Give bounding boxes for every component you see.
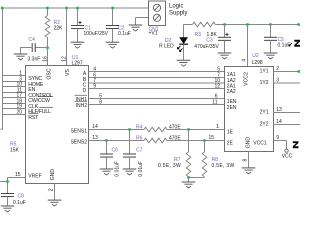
pin number 3 [19,77,22,83]
pin number U1 6 [93,72,96,78]
label C2 [118,25,125,31]
ground D2 [177,60,191,66]
svg-text:13: 13 [92,135,98,141]
label U2 VCC2 [243,72,249,86]
pin name HLF/FULL [28,109,51,115]
label C7 [136,147,143,153]
overline CCW [38,96,53,98]
wire left control bus vertical [0,8,2,130]
svg-text:0.1uF: 0.1uF [278,42,291,48]
svg-text:470uF/35V: 470uF/35V [194,44,219,50]
node junction SENS1 R7 [187,128,190,131]
label C5 value [278,42,291,48]
svg-text:470E: 470E [169,135,181,141]
wire C7 stem top [129,130,131,155]
label U1 [72,55,79,61]
label U1 VS [65,69,71,76]
svg-text:Logic: Logic [169,4,183,10]
wire C4 ground stem [20,48,22,54]
wire C1 ground stem [77,29,79,42]
label R4 [136,124,143,130]
wire C7 ground stem [129,157,131,169]
resistor R4 [144,127,167,132]
capacitor C5 [264,37,277,40]
svg-text:R6: R6 [136,135,143,141]
node junction rail VS [65,7,68,10]
svg-text:GND: GND [50,169,56,181]
svg-text:VREF: VREF [28,174,41,180]
pin number 16 [42,56,48,62]
pin name U2 1E [227,129,234,135]
svg-text:2E: 2E [227,140,234,146]
pin number U2 15 [208,135,214,141]
wire VS pin12 from rail to U1 [66,8,68,66]
supply VCC symbol [282,149,293,159]
pin name U1 INH1 [76,97,88,103]
svg-text:C6: C6 [112,147,119,153]
pin name EN [28,87,35,93]
pin number U1 7 [93,78,96,84]
label R2 [54,20,61,26]
svg-text:R4: R4 [136,124,143,130]
wire U1 pin 17 stub [3,97,26,99]
wire C4 right [35,47,48,49]
wire D2 cathode to ground [183,44,185,60]
pin number U1 13 [92,135,98,141]
wire U2 VCC1 pin9 [274,141,287,149]
svg-text:U2: U2 [252,53,259,59]
pin name CLK [28,104,38,110]
svg-text:SENS2: SENS2 [71,139,88,145]
svg-text:0.5E, 3W: 0.5E, 3W [212,163,235,169]
ground C6 [100,169,114,175]
node junction rail C1 [76,7,79,10]
capacitor C2 [106,26,119,29]
wire U1 pin 3 stub [3,81,26,83]
capacitor C7 [123,154,136,157]
wire U2 GND pin8 [248,152,250,168]
label U2 [252,53,259,59]
ground C1 [71,42,85,48]
pin number U2 10 [214,78,220,84]
pin number 15 [15,172,21,178]
wire R2 bottom stub [47,38,49,49]
svg-text:22K: 22K [54,26,64,32]
pin name CONTROL [28,93,52,99]
pin number U2 1 [216,124,219,130]
overline INH1 [75,94,88,96]
pin name U2 1EN [227,99,237,105]
wire OSC pin16 to U1 [47,48,49,66]
svg-text:13: 13 [276,107,282,113]
node junction rail C3 [223,23,226,26]
svg-text:R5: R5 [10,141,17,147]
ground C4 [14,54,28,60]
label C3 [206,37,213,43]
wire VREF left [0,181,8,183]
pin name SYNC [28,76,42,82]
svg-text:+V1: +V1 [149,31,158,37]
label R8 value [212,163,235,169]
pin name U2 1Y2 [260,80,269,86]
wire C bus U1-U2 [89,82,225,84]
svg-text:C8: C8 [18,193,25,199]
wire B bus U1-U2 [89,77,225,79]
capacitor C4 [32,43,35,52]
svg-text:16: 16 [42,56,48,62]
label CN1 [149,26,159,32]
node junction SENS2 C6 [105,139,108,142]
label C2 value [118,31,131,37]
pin number 10 [16,82,22,88]
node junction VREF C8 [6,180,9,183]
node junction rail left-bus [1,7,4,10]
resistor R6 [144,138,167,143]
svg-text:470E: 470E [169,124,181,130]
ground U2 pin8 [242,168,256,174]
ground C8 [1,206,15,212]
wire SENS1 U1 to U2 pin1 [89,129,225,131]
svg-text:C7: C7 [136,147,143,153]
wire SENS2 U1 to U2 pin15 [89,140,225,142]
svg-text:3.3nF: 3.3nF [28,57,41,63]
svg-text:2EN: 2EN [227,105,237,111]
capacitor C6 [100,154,113,157]
label R2 value 22K [54,26,64,32]
wire +5V top rail [2,7,149,9]
svg-text:8: 8 [99,99,102,105]
svg-text:15K: 15K [10,148,20,154]
ground R7 R8 [182,182,196,188]
svg-text:2A2: 2A2 [227,89,236,95]
label C8 value [13,200,26,206]
wire A bus U1-U2 [89,71,225,73]
wire U1 pin 11 stub [3,92,26,94]
label C1 value [84,31,109,37]
wire U2 1Y1 output [274,71,301,73]
svg-text:15: 15 [15,172,21,178]
svg-text:100uF/25V: 100uF/25V [84,31,109,37]
wire U1 pin 20 stub [3,114,26,116]
wire R7-R8 bottom [189,177,205,179]
svg-text:RST: RST [28,115,39,121]
wire VCC2 pin4 to U2 [247,25,249,67]
pin name RST [28,115,39,121]
wire C6 ground stem [106,157,108,169]
pin number 20 [16,110,22,116]
label U1 OSC [46,68,52,79]
pin number U1 4 [93,66,96,72]
svg-text:1E: 1E [227,129,234,135]
svg-text:0.1uF: 0.1uF [13,200,26,206]
pin name U2 2Y1 [260,110,269,116]
capacitor C3 polarized [218,33,231,41]
resistor R8 [202,152,207,177]
ground C2 [106,42,120,48]
ground C7 [123,169,137,175]
wire INH2 bus U1-U2 [89,104,225,106]
capacitor C1 polarized [71,21,84,29]
svg-text:12: 12 [214,83,220,89]
label R7 [174,157,181,163]
overline FULL [39,107,53,109]
pin number U1 5 [99,93,102,99]
label D2 R LED [159,44,174,50]
svg-text:2Y2: 2Y2 [260,122,269,128]
pin name SENS2 [71,139,88,145]
wire R7 ground stem [188,178,190,182]
wire U2 2Y2 output [274,124,301,126]
label R3 [195,32,202,38]
wire R2 top stub [47,8,49,16]
label R6 [136,135,143,141]
pin number U1 8 [99,99,102,105]
pin number U2 7 [217,72,220,78]
wire U1 pin 10 stub [3,86,26,88]
wire D bus U1-U2 [89,88,225,90]
svg-text:2Y1: 2Y1 [260,110,269,116]
label CN1 +V1 [149,31,158,37]
wire C6 stem top [106,141,108,155]
svg-text:VCC: VCC [282,153,293,159]
label C6 value 0.01uF [115,161,121,177]
svg-text:15: 15 [208,135,214,141]
svg-text:2: 2 [49,188,55,191]
svg-text:C3: C3 [206,37,213,43]
wire U1 pin 19 stub [3,108,26,110]
svg-text:1: 1 [216,124,219,130]
label R3 value 1.8K [207,32,218,38]
ground C5 [264,53,278,59]
label R5 value 15K [10,148,20,154]
wire C5 top stub [270,25,272,38]
pin number U2 13 [276,107,282,113]
overline INH2 [75,100,88,102]
svg-text:0.01uF: 0.01uF [115,161,121,177]
svg-text:14: 14 [276,119,282,125]
svg-text:1Y1: 1Y1 [260,69,269,75]
wire VREF down [7,178,9,194]
pin name U1 D [83,88,87,94]
diode at edge bottom (cut off) [293,141,299,148]
label C6 [112,147,119,153]
pin number 19 [16,104,22,110]
svg-text:SENS1: SENS1 [71,128,88,134]
wire C1 top stub [77,8,79,26]
svg-text:9: 9 [276,135,279,141]
pin number U2 3 [276,78,279,84]
wire INH1 bus U1-U2 [89,98,225,100]
connector CN1 terminal block [149,1,166,26]
wire C4 left [20,47,32,49]
label R6 value 470E [169,135,181,141]
svg-text:R3: R3 [195,32,202,38]
label U1 L297 [72,61,83,67]
svg-text:R8: R8 [212,157,219,163]
label D2 [165,38,172,44]
pin name U1 B [83,77,87,83]
label C8 [18,193,25,199]
pin name U1 A [83,71,87,77]
node junction R7 ground [187,176,190,179]
svg-text:D: D [83,88,87,94]
label C1 [85,25,92,31]
label R7 value [158,163,181,169]
ground C3 [218,53,232,59]
pin name U2 2E [227,140,234,146]
pin name U1 INH2 [76,103,88,109]
capacitor C8 [1,194,14,197]
diode D2 red LED [177,37,188,51]
svg-text:20: 20 [16,110,22,116]
svg-text:GND: GND [245,137,251,149]
label R8 [212,157,219,163]
svg-text:VCC1: VCC1 [253,140,267,146]
svg-text:VS: VS [65,69,71,76]
svg-text:R7: R7 [174,157,181,163]
svg-text:Supply: Supply [169,10,187,16]
pin name VREF [28,174,41,180]
svg-text:OSC: OSC [46,68,52,79]
svg-text:1Y2: 1Y2 [260,80,269,86]
pin number 1 [19,71,22,77]
pin number U2 2 [276,66,279,72]
node junction rail R2 [46,7,49,10]
wire +V motor rail right [215,24,300,26]
wire U1 GND pin2 [54,184,56,200]
svg-text:0.1uF: 0.1uF [118,31,131,37]
resistor R7 [186,152,191,177]
label C3 value [194,44,219,50]
pin number 12 [61,56,67,62]
node junction R2 C4 OSC [46,46,49,49]
pin number U2 11 [212,99,217,105]
pin number U1 14 [92,124,98,130]
wire C2 ground stem [112,29,114,42]
pin number U2 9 [276,135,279,141]
wire C3 top stub [224,25,226,38]
pin number U2 8 [243,159,249,162]
label C5 [278,37,285,43]
svg-text:0.01uF: 0.01uF [138,161,144,177]
diode D1 at edge (cut off) [289,40,300,47]
wire U2 2Y1 output [274,112,301,114]
label C7 value 0.01uF [138,161,144,177]
svg-text:8: 8 [243,159,249,162]
ground U1 pin2 [48,200,62,206]
wire C5 ground stem [270,40,272,52]
pin number U2 5 [217,66,220,72]
pin name U2 VCC1 [253,140,267,146]
pin name U2 2Y2 [260,122,269,128]
svg-text:12: 12 [61,56,67,62]
label C4 [29,37,36,43]
node junction rail edge [297,23,300,26]
pin name SENS1 [71,128,88,134]
wire +V motor rail left [184,24,193,26]
svg-text:3: 3 [276,78,279,84]
pin name U2 2A2 [227,89,236,95]
pin name U2 1A2 [227,78,236,84]
wire U1 pin 1 stub [3,75,26,77]
wire U2 1Y2 output [274,82,301,84]
label C4 value 3.3nF [28,57,41,63]
svg-text:0.5E, 3W: 0.5E, 3W [158,163,181,169]
svg-text:C4: C4 [29,37,36,43]
overline RST [28,113,38,115]
label U2 GND [245,137,251,149]
wire D2 anode [183,25,185,38]
wire C2 top stub [112,8,114,26]
wire U1 pin 18 stub [3,103,26,105]
label R4 value 470E [169,124,181,130]
resistor R2 [45,16,50,38]
svg-text:4: 4 [241,59,247,62]
pin number 18 [16,99,22,105]
svg-text:L297: L297 [72,61,83,67]
pin name U2 2A1 [227,84,236,90]
node junction rail C5 [269,23,272,26]
pin number U1 9 [93,83,96,89]
node junction rail VCC2 [246,23,249,26]
svg-text:11: 11 [212,99,217,105]
pin name HOME [28,82,44,88]
pin name U1 C [83,83,87,89]
svg-text:2: 2 [276,66,279,72]
ic U1 box [26,66,89,184]
label Logic Supply [169,4,187,17]
wire R8 top stub [204,141,206,152]
wire C3 ground stem [224,40,226,52]
pin number U2 12 [214,83,220,89]
svg-text:R LED: R LED [159,44,174,50]
pin number U2 14 [276,119,282,125]
pin name U2 1A1 [227,72,236,78]
svg-text:9: 9 [93,83,96,89]
node junction 1Y1 edge [297,70,300,73]
wire C8 ground stem [7,197,9,206]
resistor R3 [193,22,216,27]
wire CN1 pin2 horizontal [136,17,149,19]
pin name U2 2EN [227,105,237,111]
svg-text:14: 14 [92,124,98,130]
pin number 11 [17,88,22,94]
wire R7 top stub [188,130,190,152]
wire CN1 ground stem [135,18,137,25]
ic U2 box [225,67,274,152]
pin number U2 6 [215,93,218,99]
ground CN1 [129,25,143,31]
pin number 4 [241,59,247,62]
label U2 L298 [252,60,263,66]
node junction rail C2 [111,7,114,10]
svg-text:L298: L298 [252,60,263,66]
pin name U2 1Y1 [260,69,269,75]
svg-text:VCC2: VCC2 [243,72,249,86]
pin number 17 [16,93,22,99]
wire VREF pin15 [8,177,26,179]
pin name CW/CCW [28,98,50,104]
svg-text:INH2: INH2 [76,103,88,109]
pin number 2 [49,188,55,191]
node junction SENS2 R8 [203,139,206,142]
label R5 [10,141,17,147]
label U1 GND [50,169,56,181]
node junction SENS1 C7 [128,128,131,131]
